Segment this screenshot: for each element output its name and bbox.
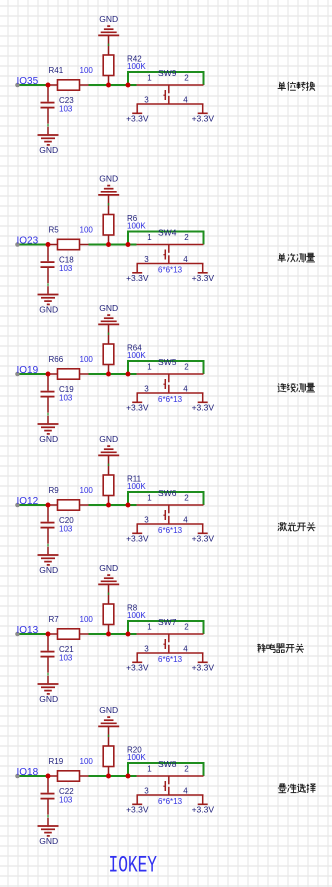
svg-text:+3.3V: +3.3V (126, 663, 149, 673)
svg-text:103: 103 (59, 264, 73, 273)
net label IO12 (17, 496, 39, 507)
wire (47, 413, 49, 416)
svg-text:6*6*13: 6*6*13 (158, 655, 183, 664)
junction A (46, 242, 51, 247)
wire (47, 124, 49, 127)
resistor R11 (103, 455, 146, 505)
junction C (126, 242, 131, 247)
text annotation 单位转换 (278, 82, 315, 91)
svg-text:GND: GND (39, 836, 58, 846)
switch SW4 (137, 228, 204, 275)
wire (89, 504, 137, 506)
wire (47, 544, 49, 547)
wire (20, 244, 49, 246)
svg-text:SW4: SW4 (158, 228, 177, 238)
svg-text:+3.3V: +3.3V (126, 403, 149, 413)
svg-text:3: 3 (144, 255, 149, 264)
svg-text:GND: GND (99, 174, 118, 184)
node IO35 port (15, 83, 20, 88)
junction B (106, 372, 111, 377)
svg-text:1: 1 (147, 622, 152, 631)
wire (128, 763, 204, 776)
ground (top) (98, 563, 119, 584)
svg-text:GND: GND (39, 694, 58, 704)
svg-text:1: 1 (147, 362, 152, 371)
resistor R42 (103, 35, 146, 85)
junction B (106, 242, 111, 247)
junction A (46, 503, 51, 508)
ground (top) (98, 434, 119, 455)
svg-text:R7: R7 (49, 615, 60, 624)
svg-text:4: 4 (183, 787, 188, 796)
svg-text:2: 2 (184, 764, 189, 773)
junction C (126, 372, 131, 377)
svg-text:103: 103 (59, 796, 73, 805)
svg-text:103: 103 (59, 654, 73, 663)
power +3.3V (left) (126, 662, 149, 672)
node IO23 port (15, 242, 20, 247)
text annotation 蜂鸣器开关 (257, 644, 304, 653)
svg-text:R41: R41 (49, 66, 64, 75)
svg-text:GND: GND (99, 434, 118, 444)
svg-text:100: 100 (80, 226, 94, 235)
svg-text:100K: 100K (127, 611, 146, 620)
wire (47, 283, 49, 286)
wire (89, 775, 137, 777)
svg-text:GND: GND (39, 305, 58, 315)
power +3.3V (right) (192, 402, 215, 412)
resistor R7 (48, 615, 93, 639)
svg-text:4: 4 (183, 516, 188, 525)
resistor R5 (48, 226, 93, 250)
svg-text:103: 103 (59, 105, 73, 114)
wire (47, 673, 49, 676)
wire (89, 244, 137, 246)
resistor R19 (48, 757, 93, 781)
wire (128, 361, 204, 374)
svg-text:GND: GND (99, 705, 118, 715)
node IO18 port (15, 774, 20, 779)
svg-text:2: 2 (184, 493, 189, 502)
svg-text:3: 3 (144, 516, 149, 525)
capacitor C23 (41, 85, 75, 124)
junction B (106, 774, 111, 779)
svg-text:100K: 100K (127, 222, 146, 231)
power +3.3V (left) (126, 533, 149, 543)
switch SW7 (137, 617, 204, 664)
svg-text:1: 1 (147, 764, 152, 773)
net label IO19 (17, 365, 39, 376)
node IO13 port (15, 632, 20, 637)
wire (89, 373, 137, 375)
capacitor C19 (41, 374, 75, 413)
power +3.3V (left) (126, 804, 149, 814)
svg-text:100: 100 (80, 486, 94, 495)
ground (top) (98, 303, 119, 324)
resistor R66 (48, 355, 93, 379)
svg-text:103: 103 (59, 525, 73, 534)
svg-text:GND: GND (99, 14, 118, 24)
junction C (126, 774, 131, 779)
svg-text:SW9: SW9 (158, 68, 177, 78)
svg-text:2: 2 (184, 73, 189, 82)
svg-text:GND: GND (39, 434, 58, 444)
capacitor C21 (41, 634, 75, 673)
svg-text:SW5: SW5 (158, 357, 177, 367)
ground (top) (98, 705, 119, 726)
svg-text:4: 4 (183, 255, 188, 264)
power +3.3V (left) (126, 113, 149, 123)
svg-text:100K: 100K (127, 482, 146, 491)
svg-text:2: 2 (184, 362, 189, 371)
ground (bottom) (38, 676, 59, 704)
wire (20, 84, 49, 86)
resistor R20 (103, 726, 146, 776)
wire (20, 373, 49, 375)
net label IO13 (17, 625, 39, 636)
svg-text:R5: R5 (49, 226, 60, 235)
svg-text:6*6*13: 6*6*13 (158, 395, 183, 404)
capacitor C22 (41, 776, 75, 815)
svg-text:SW6: SW6 (158, 488, 177, 498)
svg-text:103: 103 (59, 394, 73, 403)
capacitor C20 (41, 505, 75, 544)
ground (bottom) (38, 818, 59, 846)
resistor R9 (48, 486, 93, 510)
wire (128, 72, 204, 85)
switch SW6 (137, 488, 204, 535)
svg-text:1: 1 (147, 493, 152, 502)
svg-text:3: 3 (144, 96, 149, 105)
svg-text:100K: 100K (127, 753, 146, 762)
svg-text:100: 100 (80, 615, 94, 624)
junction C (126, 503, 131, 508)
svg-text:+3.3V: +3.3V (192, 114, 215, 124)
junction B (106, 503, 111, 508)
svg-text:+3.3V: +3.3V (126, 114, 149, 124)
svg-text:2: 2 (184, 622, 189, 631)
svg-text:IOKEY: IOKEY (109, 853, 158, 880)
wire (128, 492, 204, 505)
svg-text:+3.3V: +3.3V (126, 534, 149, 544)
net label IO23 (17, 236, 39, 247)
node IO12 port (15, 503, 20, 508)
resistor R6 (103, 195, 146, 245)
svg-text:4: 4 (183, 645, 188, 654)
switch SW8 (137, 759, 204, 806)
svg-text:R9: R9 (49, 486, 60, 495)
svg-text:6*6*13: 6*6*13 (158, 797, 183, 806)
ground (bottom) (38, 547, 59, 575)
svg-text:R19: R19 (49, 757, 64, 766)
svg-text:+3.3V: +3.3V (192, 273, 215, 283)
text annotation 基准选择 (278, 784, 316, 793)
svg-text:+3.3V: +3.3V (192, 534, 215, 544)
svg-text:3: 3 (144, 385, 149, 394)
svg-text:100: 100 (80, 757, 94, 766)
ground (bottom) (38, 416, 59, 444)
ground (top) (98, 14, 119, 35)
svg-text:6*6*13: 6*6*13 (158, 526, 183, 535)
svg-text:1: 1 (147, 233, 152, 242)
svg-text:GND: GND (99, 303, 118, 313)
resistor R8 (103, 584, 146, 634)
junction A (46, 632, 51, 637)
resistor R41 (48, 66, 93, 90)
power +3.3V (right) (192, 533, 215, 543)
resistor R64 (103, 324, 146, 374)
svg-text:R66: R66 (49, 355, 64, 364)
svg-text:100K: 100K (127, 351, 146, 360)
text annotation 连续测量 (277, 383, 314, 392)
node IO19 port (15, 372, 20, 377)
ground (top) (98, 174, 119, 195)
ground (bottom) (38, 127, 59, 155)
junction A (46, 774, 51, 779)
net label IO18 (17, 767, 39, 778)
svg-text:3: 3 (144, 787, 149, 796)
svg-text:SW7: SW7 (158, 617, 177, 627)
ground (bottom) (38, 286, 59, 314)
power +3.3V (left) (126, 402, 149, 412)
svg-text:+3.3V: +3.3V (192, 403, 215, 413)
wire (20, 504, 49, 506)
junction B (106, 632, 111, 637)
junction A (46, 372, 51, 377)
power +3.3V (right) (192, 804, 215, 814)
svg-text:+3.3V: +3.3V (126, 805, 149, 815)
svg-text:+3.3V: +3.3V (192, 663, 215, 673)
wire (128, 621, 204, 634)
svg-text:4: 4 (183, 385, 188, 394)
svg-text:1: 1 (147, 73, 152, 82)
junction C (126, 83, 131, 88)
svg-text:4: 4 (183, 96, 188, 105)
svg-text:3: 3 (144, 645, 149, 654)
text annotation 单次测量 (278, 253, 315, 262)
svg-text:100: 100 (80, 355, 94, 364)
svg-text:2: 2 (184, 233, 189, 242)
junction A (46, 83, 51, 88)
wire (20, 633, 49, 635)
svg-text:SW8: SW8 (158, 759, 177, 769)
svg-text:6*6*13: 6*6*13 (158, 266, 183, 275)
svg-text:100: 100 (80, 66, 94, 75)
power +3.3V (right) (192, 113, 215, 123)
svg-text:+3.3V: +3.3V (126, 273, 149, 283)
power +3.3V (right) (192, 273, 215, 283)
svg-text:GND: GND (99, 563, 118, 573)
wire (89, 84, 137, 86)
wire (47, 815, 49, 818)
power +3.3V (right) (192, 662, 215, 672)
switch SW5 (137, 357, 204, 404)
capacitor C18 (41, 245, 75, 284)
svg-text:GND: GND (39, 565, 58, 575)
svg-text:+3.3V: +3.3V (192, 805, 215, 815)
wire (128, 232, 204, 245)
svg-text:GND: GND (39, 145, 58, 155)
net label IO35 (17, 76, 39, 87)
wire (20, 775, 49, 777)
svg-text:100K: 100K (127, 62, 146, 71)
text IOKEY (109, 853, 158, 880)
junction C (126, 632, 131, 637)
junction B (106, 83, 111, 88)
wire (89, 633, 137, 635)
text annotation 激光开关 (278, 522, 316, 531)
power +3.3V (left) (126, 273, 149, 283)
switch SW9 (137, 68, 204, 113)
